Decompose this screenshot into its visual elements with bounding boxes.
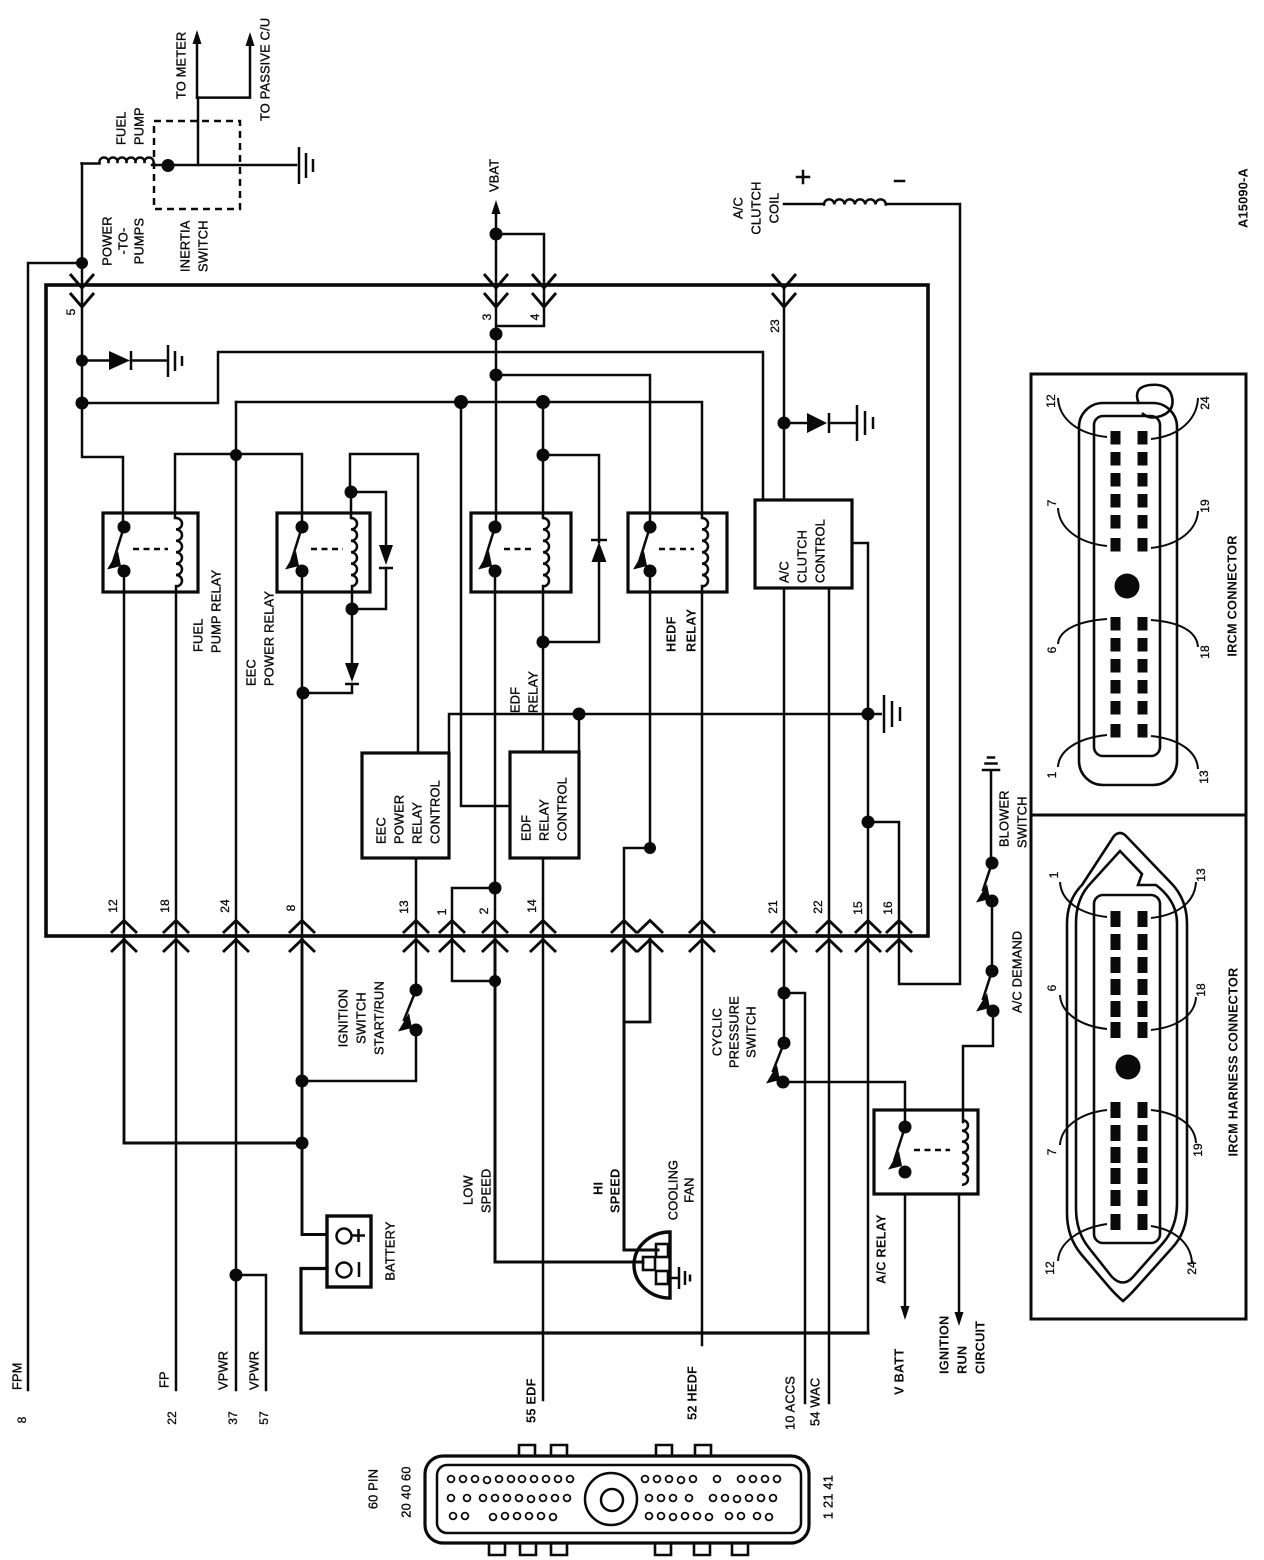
arrowhead demand blade (976, 993, 990, 1012)
svg-text:PRESSURE: PRESSURE (727, 996, 742, 1068)
svg-text:TO PASSIVE C/U: TO PASSIVE C/U (258, 18, 273, 121)
wire y454 fp-eec feed (175, 454, 302, 527)
svg-text:RELAY: RELAY (526, 671, 541, 713)
wire vbat-to-hedf y375 (496, 375, 650, 527)
wire pin14 to 55EDF (542, 936, 545, 1400)
wire pin23 feed to a/c control (783, 285, 786, 500)
wire a/c clutch coil feed (784, 204, 960, 984)
connector J2 housing middle (1076, 851, 1177, 1283)
svg-text:18: 18 (1198, 645, 1212, 659)
wire edf parallel diode (543, 455, 599, 642)
svg-text:13: 13 (1194, 868, 1208, 882)
node blower upper (986, 857, 999, 870)
ground cooling fan (668, 1267, 690, 1289)
connector J3 pin row 1 (448, 1476, 455, 1483)
callout J2 pin1 (1060, 882, 1107, 917)
svg-text:CONTROL: CONTROL (428, 780, 443, 844)
svg-text:SPEED: SPEED (479, 1169, 494, 1213)
node inertia switch contact (162, 159, 175, 172)
wire pin21 to cyclic switch (783, 936, 786, 1043)
node demand upper (986, 965, 999, 978)
wire edf coil bottom (542, 586, 545, 752)
ground y714 (868, 695, 900, 733)
svg-text:RELAY: RELAY (537, 799, 552, 841)
svg-text:CYCLIC: CYCLIC (710, 1008, 725, 1056)
svg-text:RELAY: RELAY (410, 802, 425, 844)
wire pin4 feed (496, 234, 544, 285)
diode D2 bar (379, 567, 393, 570)
relay K3 edf relay (471, 513, 571, 592)
svg-text:55 EDF: 55 EDF (524, 1378, 539, 1423)
ground diode D5 (857, 405, 873, 441)
wire ignition blade (404, 990, 416, 1020)
pin 1 chevrons (439, 921, 465, 953)
wire power-to-pumps drop (28, 164, 82, 1391)
arrowhead cyclic blade (766, 1065, 780, 1084)
svg-text:14: 14 (525, 899, 539, 913)
svg-text:12: 12 (1043, 1261, 1057, 1275)
callout J2 pin6 (1060, 995, 1107, 1029)
node pins3-4 join (490, 328, 503, 341)
svg-text:FP: FP (157, 1371, 172, 1388)
connector J2 housing outer (1067, 833, 1187, 1301)
pin 5 chevrons (70, 274, 94, 307)
callout J1 pin7 (1058, 508, 1107, 546)
node eec coil bottom (346, 603, 359, 616)
svg-text:18: 18 (158, 899, 172, 913)
svg-text:IGNITION: IGNITION (336, 989, 351, 1047)
node ignition upper contact (410, 984, 423, 997)
svg-text:EDF: EDF (519, 815, 534, 841)
svg-text:POWER: POWER (392, 795, 407, 844)
node power-to-pumps junction (76, 257, 88, 269)
callout J1 pin13 (1151, 736, 1198, 769)
node y402 edf-control tap (454, 395, 468, 409)
svg-text:FPM: FPM (10, 1362, 25, 1390)
wire VPWR57 branch (236, 1275, 266, 1390)
wire inertia switch to ground (152, 164, 296, 167)
svg-text:24: 24 (1198, 396, 1212, 410)
node pin15/16 split (862, 816, 875, 829)
wire pin15 riser (867, 714, 870, 1333)
pin hi-speed-a chevrons (611, 921, 637, 953)
pin 12 chevrons (111, 921, 137, 953)
diode D4 edf parallel (592, 542, 607, 562)
wire 52HEDF drop (701, 936, 704, 1345)
wire blower blade (983, 863, 992, 890)
diode D5 a/c clamp (807, 413, 827, 433)
wire TO METER/PASSIVE tie (197, 44, 250, 98)
pin 52-hedf chevrons (689, 921, 715, 953)
wire drop to inertia switch (197, 98, 200, 165)
symbol plus (797, 171, 809, 183)
node eec contact-coil join (297, 687, 310, 700)
pin 24 chevrons (223, 921, 249, 953)
connector J3 pin row 2 (448, 1495, 455, 1502)
wire vpwr bus y402 (236, 402, 702, 518)
svg-text:16: 16 (881, 901, 895, 915)
svg-text:V BATT: V BATT (892, 1349, 907, 1395)
wire cyclic blade (773, 1043, 784, 1071)
relay K2 eec power relay (277, 513, 370, 592)
connector J1 housing (1079, 403, 1177, 785)
diode D2 eec parallel (379, 545, 393, 565)
wire pin1-pin2 tie above (452, 888, 495, 936)
diode D3 bar (345, 683, 359, 686)
callout J1 pin24 (1151, 398, 1198, 439)
node vpwr57 tap (230, 1269, 243, 1282)
wire pin4 below tie (497, 285, 544, 326)
svg-text:IRCM CONNECTOR: IRCM CONNECTOR (1225, 535, 1240, 656)
relay K1 fuel pump relay (103, 513, 198, 592)
svg-text:PUMP RELAY: PUMP RELAY (209, 569, 224, 653)
battery B1 (327, 1216, 371, 1287)
svg-text:10 ACCS: 10 ACCS (783, 1376, 798, 1430)
svg-text:19: 19 (1198, 499, 1212, 513)
wire fp coil bottom / pin18 (175, 586, 178, 936)
connector J3 eec 60-pin (489, 1445, 748, 1555)
box U3 a/c clutch control (755, 500, 852, 588)
svg-text:A/C: A/C (777, 561, 792, 583)
wire edf control feed (461, 402, 510, 806)
IRCM module outline (46, 285, 928, 936)
wire edf coil top (542, 402, 545, 518)
wire y454 eec-coil to control (350, 454, 418, 753)
BOTTOM (963, 758, 999, 1123)
connector J2 ircm harness connector box (1031, 815, 1246, 1319)
svg-text:57: 57 (257, 1411, 271, 1425)
wire hedf coil bottom (701, 586, 704, 936)
svg-text:FUEL: FUEL (191, 618, 206, 652)
ground inertia switch (299, 147, 313, 184)
ground diode D1 (168, 345, 182, 377)
wire pin22 to 54WAC (828, 936, 831, 1403)
callout J2 pin13 (1151, 882, 1196, 918)
wire v-batt arrow (904, 1194, 907, 1308)
svg-text:CONTROL: CONTROL (813, 519, 828, 583)
svg-text:IGNITION: IGNITION (937, 1316, 952, 1374)
node a/c diode tap (778, 417, 791, 430)
pin 2 chevrons (482, 921, 508, 953)
svg-text:3: 3 (480, 313, 494, 320)
svg-text:12: 12 (106, 899, 120, 913)
svg-text:52 HEDF: 52 HEDF (685, 1366, 700, 1420)
node cyclic lower contact (777, 1076, 790, 1089)
callout J1 pin12 (1058, 398, 1107, 437)
relay K4 hedf relay (628, 513, 727, 592)
diode D3 eec series (345, 663, 359, 682)
node y403 tap (76, 397, 89, 410)
svg-text:37: 37 (226, 1411, 240, 1425)
arrowhead TO METER (193, 30, 202, 44)
connector J3 tabs bottom (489, 1541, 505, 1555)
node diode tap (76, 355, 88, 367)
callout J1 pin18 (1151, 620, 1198, 647)
node y402 edf-coil tap (536, 395, 550, 409)
wire TO METER arrow (196, 42, 199, 98)
wire ignition-run arrow (958, 1194, 961, 1314)
arrowhead ignition blade (398, 1013, 412, 1032)
arrowhead TO PASSIVE C/U (246, 32, 255, 46)
wire pin24 to VPWR37 (235, 936, 238, 1390)
inductor a/c clutch coil (824, 199, 886, 204)
wire pin3 below (495, 285, 498, 527)
diode D1 (109, 351, 130, 370)
pin 21 chevrons (771, 921, 797, 953)
svg-text:A/C DEMAND: A/C DEMAND (1010, 931, 1025, 1013)
pin hi-speed-b chevrons (637, 921, 663, 953)
svg-text:A15090-A: A15090-A (1236, 168, 1251, 228)
svg-text:HI: HI (591, 1182, 606, 1195)
wire hedf split branch (624, 848, 650, 936)
svg-text:12: 12 (1044, 394, 1058, 408)
connector J1 swoosh tab (1137, 385, 1172, 418)
node pin2 lower tie (489, 975, 501, 987)
node y454 vpwr tap (230, 449, 242, 461)
node eec coil top (345, 486, 358, 499)
svg-text:PUMP: PUMP (132, 107, 147, 145)
inertia switch dashed box (154, 121, 240, 209)
node edf coil bottom (537, 636, 550, 649)
svg-text:TO METER: TO METER (174, 32, 189, 99)
svg-text:CIRCUIT: CIRCUIT (973, 1321, 988, 1374)
pin 13 chevrons (403, 921, 429, 953)
node hedf split (644, 842, 656, 854)
inductor fuel pump coil (82, 157, 154, 163)
connector J2 pins left (1111, 911, 1121, 927)
svg-text:CONTROL: CONTROL (555, 777, 570, 841)
svg-text:13: 13 (397, 900, 411, 914)
diode D1 cathode bar (130, 351, 133, 370)
arrowhead v-batt (901, 1306, 910, 1320)
svg-text:1: 1 (1047, 871, 1061, 878)
wire y714 link (449, 714, 868, 753)
wire 10ACCS branch (784, 993, 805, 1403)
box U2 edf relay control (510, 752, 579, 858)
svg-text:EEC: EEC (244, 659, 259, 686)
pin 14 chevrons (530, 921, 556, 953)
node pin8-ignition tap (296, 1075, 309, 1088)
wire diode branch (82, 359, 166, 362)
wire eec parallel diode (351, 492, 386, 609)
wire pin13 to ignition switch (415, 936, 418, 990)
pin 18 chevrons (163, 921, 189, 953)
connector J1 pins right (1138, 431, 1148, 445)
diode D4 bar (591, 539, 607, 542)
svg-text:A/C RELAY: A/C RELAY (874, 1214, 889, 1284)
node cyclic upper contact (778, 1037, 791, 1050)
pin 3 chevrons (484, 274, 508, 307)
connector J1 ircm connector box (1031, 374, 1246, 815)
svg-text:22: 22 (811, 900, 825, 914)
svg-text:PUMPS: PUMPS (132, 218, 147, 265)
wire pin24 riser (235, 402, 238, 936)
wire hedf pins join (624, 936, 650, 1022)
callout J1 pin19 (1151, 511, 1198, 548)
connector J3 inner (437, 1465, 801, 1533)
svg-text:SWITCH: SWITCH (744, 1006, 759, 1058)
connector J1 index dot (1115, 574, 1140, 599)
callout J1 pin6 (1058, 619, 1107, 644)
wire pin5 entry (81, 263, 84, 285)
pin 4 chevrons (532, 274, 556, 307)
wire pin3 feed (495, 234, 498, 285)
svg-text:FAN: FAN (682, 1177, 697, 1203)
svg-text:7: 7 (1045, 1148, 1059, 1155)
arrowhead ignition-run (955, 1312, 964, 1326)
svg-text:COOLING: COOLING (666, 1160, 681, 1220)
svg-text:VPWR: VPWR (247, 1351, 262, 1390)
svg-text:SPEED: SPEED (608, 1169, 623, 1213)
svg-text:SWITCH: SWITCH (1015, 796, 1030, 848)
svg-text:BLOWER: BLOWER (997, 790, 1012, 847)
wire net feed y403 (82, 352, 763, 500)
node y714 ground tap (862, 708, 875, 721)
svg-text:2: 2 (477, 907, 491, 914)
svg-text:SWITCH: SWITCH (354, 992, 369, 1044)
connector J3 key circle (585, 1473, 637, 1525)
wire a/c control pin21 out (783, 588, 786, 936)
svg-text:SWITCH: SWITCH (196, 220, 211, 272)
svg-text:15: 15 (851, 901, 865, 915)
svg-text:EEC: EEC (374, 817, 389, 844)
svg-text:22: 22 (165, 1411, 179, 1425)
TOPLEFT (124, 402, 868, 936)
svg-text:4: 4 (528, 313, 542, 320)
node blower lower (986, 895, 999, 908)
connector J3 body (425, 1456, 809, 1543)
wire pin12 tie (124, 936, 302, 1143)
callout J2 pin18 (1151, 997, 1196, 1030)
svg-text:LOW: LOW (461, 1175, 476, 1205)
wire VBAT stem (495, 212, 498, 234)
svg-text:6: 6 (1045, 984, 1059, 991)
svg-text:24: 24 (218, 899, 232, 913)
connector J3 pin row 3 (450, 1513, 457, 1520)
connector J2 cavity (1094, 895, 1160, 1243)
connector J1 cavity (1094, 416, 1160, 756)
svg-text:23: 23 (768, 319, 782, 333)
svg-text:POWER RELAY: POWER RELAY (262, 591, 277, 686)
wire pin1-pin2 tie below (452, 936, 495, 981)
wire demand to a/c relay coil (963, 1011, 993, 1122)
svg-text:COIL: COIL (767, 193, 782, 224)
node pin2 upper tie (489, 882, 502, 895)
wire demand blade (983, 971, 992, 999)
wire pin2 low speed run (495, 936, 643, 1262)
callout J2 pin19 (1151, 1110, 1196, 1143)
svg-text:19: 19 (1191, 1143, 1205, 1157)
wire ignition switch to pin8 line (302, 1030, 416, 1081)
svg-text:FUEL: FUEL (114, 111, 129, 145)
svg-text:A/C: A/C (731, 197, 746, 219)
svg-text:7: 7 (1045, 499, 1059, 506)
ground blower switch (983, 758, 999, 864)
node y714 edf-control tap (573, 708, 586, 721)
svg-text:1: 1 (1045, 771, 1059, 778)
pin 23 chevrons (772, 274, 796, 307)
callout J2 pin12 (1058, 1224, 1107, 1261)
svg-text:EDF: EDF (508, 687, 523, 713)
svg-text:IRCM HARNESS CONNECTOR: IRCM HARNESS CONNECTOR (1226, 967, 1241, 1156)
pin 22 chevrons (816, 921, 842, 953)
svg-text:8: 8 (15, 1416, 29, 1423)
svg-text:RUN: RUN (955, 1346, 970, 1374)
wire hi speed run (624, 936, 658, 1250)
wire pin5 net below edge (82, 285, 123, 527)
svg-text:20 40 60: 20 40 60 (399, 1466, 414, 1517)
svg-text:60 PIN: 60 PIN (366, 1469, 381, 1509)
wire a/c control ground out (852, 543, 868, 714)
svg-text:START/RUN: START/RUN (372, 981, 387, 1055)
relay K5 a/c relay (874, 1110, 978, 1194)
svg-text:RELAY: RELAY (684, 609, 699, 652)
svg-text:1: 1 (435, 908, 449, 915)
svg-text:INERTIA: INERTIA (178, 220, 193, 272)
callout J1 pin1 (1058, 735, 1107, 767)
svg-text:VPWR: VPWR (216, 1351, 231, 1390)
wire a/c control pin22 out (828, 588, 831, 936)
svg-text:18: 18 (1194, 983, 1208, 997)
pin 15 chevrons (855, 921, 881, 953)
svg-text:-TO-: -TO- (116, 228, 131, 255)
connector J1 pins left (1111, 431, 1121, 445)
svg-text:24: 24 (1185, 1261, 1199, 1275)
node edf diode top (537, 449, 550, 462)
svg-text:CLUTCH: CLUTCH (795, 530, 810, 583)
wire hedf contact bottom (649, 571, 652, 848)
svg-text:5: 5 (64, 308, 78, 315)
svg-text:8: 8 (284, 904, 298, 911)
callout J2 pin24 (1151, 1226, 1192, 1263)
node ignition lower contact (410, 1024, 423, 1037)
wire edf contact bottom / pin2 (494, 571, 497, 936)
motor M1 cooling fan (634, 1232, 670, 1298)
node pin8-pin12 tap (296, 1137, 309, 1150)
svg-text:VBAT: VBAT (487, 159, 502, 192)
box U1 eec power relay control (362, 753, 449, 858)
symbol minus (895, 180, 904, 183)
svg-text:POWER: POWER (100, 216, 115, 265)
arrowhead VBAT (492, 200, 501, 214)
wire pin14 edf control out (542, 858, 545, 936)
wire a/c diode branch (784, 422, 855, 425)
svg-text:CLUTCH: CLUTCH (749, 181, 764, 234)
connector J2 index dot (1116, 1055, 1141, 1080)
svg-text:6: 6 (1045, 646, 1059, 653)
wire pin18 to FP label (175, 936, 178, 1390)
svg-text:13: 13 (1197, 770, 1211, 784)
wire eec coil top (350, 492, 353, 518)
connector J3 tabs top (519, 1445, 535, 1458)
node demand lower (987, 1005, 1000, 1018)
svg-text:BATTERY: BATTERY (383, 1221, 398, 1281)
wire battery minus run (301, 1269, 868, 1334)
node vbat tie (490, 228, 503, 241)
wire pin13 eec control out (415, 858, 418, 936)
wire fp contact bottom / pin12 (123, 571, 126, 936)
svg-text:HEDF: HEDF (664, 616, 679, 652)
wire pin8 riser to battery (302, 936, 327, 1235)
pin 16 chevrons (886, 921, 912, 953)
wire eec coil bottom (303, 586, 352, 693)
CONTROLS (70, 274, 912, 952)
svg-text:21: 21 (766, 900, 780, 914)
node cyclic feed tap (778, 987, 791, 1000)
pin 8 chevrons (289, 921, 315, 953)
PINS (124, 714, 905, 1403)
wire blower to demand (991, 901, 994, 971)
